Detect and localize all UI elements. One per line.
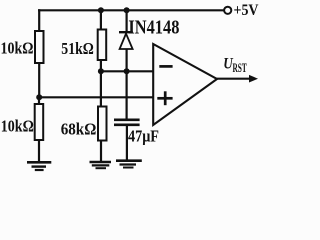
resistor R3 10kΩ (bottom left) — [35, 104, 44, 140]
wire: R4 bottom to ground — [100, 141, 102, 163]
wire: R2 bottom to node − — [100, 60, 102, 72]
svg-text:10kΩ: 10kΩ — [1, 117, 34, 136]
wire: capacitor bottom to ground — [126, 125, 128, 161]
junction: rail to 51kΩ — [98, 7, 104, 13]
svg-text:IN4148: IN4148 — [128, 17, 179, 38]
svg-text:51kΩ: 51kΩ — [61, 39, 94, 58]
svg-text:68kΩ: 68kΩ — [61, 120, 97, 139]
junction: node − at diode/cap — [124, 68, 130, 74]
diode D1 IN4148 (cathode up) — [119, 32, 133, 49]
wire: rail down to R1 top — [38, 9, 40, 31]
pin label − (inverting input) — [159, 65, 172, 68]
wire: rail down to R2 top — [100, 10, 102, 30]
wire: node + down to R3 top — [38, 97, 40, 104]
wire: node − down to capacitor (crosses + row) — [125, 71, 127, 120]
pin label + (non-inverting input) — [157, 91, 172, 105]
wire: +5V top rail — [38, 9, 224, 11]
svg-text:47μF: 47μF — [128, 127, 159, 146]
wire: R3 bottom to ground — [38, 140, 40, 163]
svg-text:10kΩ: 10kΩ — [1, 39, 34, 58]
wire: node − down to R4 top (crosses + row) — [100, 71, 102, 107]
op-amp U1 (comparator triangle) — [153, 44, 217, 125]
ground (right, under C1) — [116, 161, 142, 168]
junction: node − at 51k/68k — [98, 68, 104, 74]
wire: rail down to diode — [125, 10, 127, 32]
wire: diode anode down to node − — [125, 49, 127, 72]
net label U_RST (output) — [223, 55, 247, 75]
ground (left, under R3) — [27, 162, 51, 170]
resistor R1 10kΩ (top left) — [35, 31, 44, 63]
resistor R4 68kΩ — [98, 107, 107, 141]
capacitor C1 47µF — [114, 120, 140, 125]
wire: node + row to op-amp non-inverting input — [39, 96, 153, 98]
svg-text:+5V: +5V — [234, 2, 260, 19]
junction: rail to diode cathode — [124, 7, 130, 13]
resistor R2 51kΩ — [98, 30, 107, 61]
junction: divider midpoint node — [36, 94, 42, 100]
wire: op-amp output with arrow — [216, 75, 258, 83]
svg-text:RST: RST — [233, 60, 247, 75]
ground (middle, under R4) — [90, 162, 112, 168]
wire: R1 bottom to node + — [38, 63, 40, 98]
terminal +5V (open circle) — [224, 7, 231, 14]
wire: node − row to op-amp inverting input — [101, 70, 153, 72]
